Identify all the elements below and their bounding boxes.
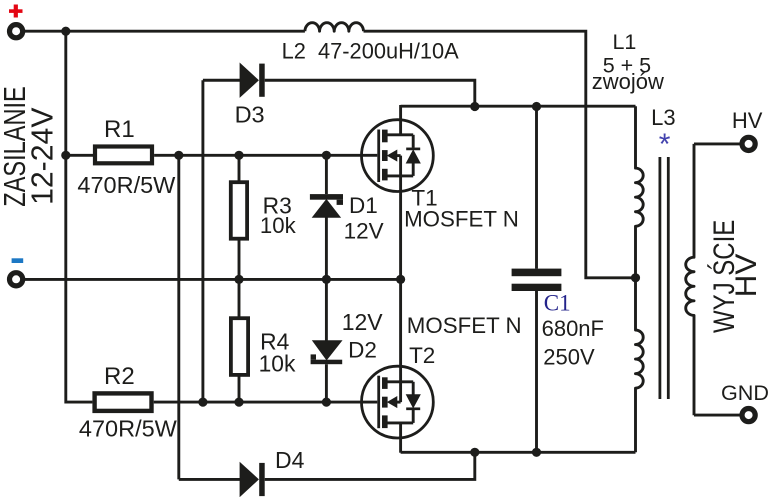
node D1 top junction (322, 151, 331, 160)
svg-text:470R/5W: 470R/5W (77, 172, 176, 198)
wire T1 drain rail (401, 105, 636, 108)
wire D4 gate vertical (177, 155, 180, 479)
wire GND output (694, 414, 741, 417)
supply + terminal (10, 25, 23, 38)
resistor R3 (238, 155, 241, 182)
svg-text:D4: D4 (275, 447, 305, 473)
svg-text:470R/5W: 470R/5W (79, 416, 178, 442)
svg-text:10k: 10k (260, 213, 297, 238)
HV terminal (742, 137, 755, 150)
svg-text:L1: L1 (612, 30, 636, 54)
supply - terminal (10, 273, 23, 286)
svg-text:*: * (659, 128, 671, 161)
plus supply symbol (9, 9, 23, 13)
svg-text:MOSFET N: MOSFET N (404, 207, 519, 232)
wire HV output (694, 142, 741, 145)
node D2 bottom junction (322, 398, 331, 407)
diode D3 (203, 79, 240, 82)
wire T2 drain rail (401, 451, 636, 454)
node D3 drain junction (470, 102, 479, 111)
node R4 bottom junction (234, 398, 243, 407)
GND terminal (742, 409, 755, 422)
transistor T1 (362, 105, 434, 280)
inductor L1 primary (636, 106, 644, 452)
svg-text:12V: 12V (342, 309, 384, 335)
wire T1 gate rail (154, 154, 377, 157)
capacitor C1 (535, 107, 538, 269)
node R1 supply junction (61, 151, 70, 160)
svg-text:250V: 250V (543, 345, 595, 370)
node D4 gate junction (174, 151, 183, 160)
node D4 drain junction (470, 448, 479, 457)
svg-text:12V: 12V (344, 219, 384, 244)
node C1 top junction (532, 102, 541, 111)
inductor L3 secondary (686, 144, 694, 415)
svg-text:T2: T2 (409, 343, 435, 368)
resistor R2 (95, 393, 152, 411)
node R3 R4 junction (234, 275, 243, 284)
node R3 top junction (234, 151, 243, 160)
wire top rail right to center tap (364, 31, 635, 278)
wire minus rail (24, 278, 400, 281)
svg-text:680nF: 680nF (542, 316, 604, 341)
zener diode D2 (325, 279, 328, 340)
diode D4 (179, 478, 240, 481)
wire D3 gate vertical (201, 80, 204, 402)
svg-text:D3: D3 (235, 101, 265, 127)
wire supply vertical (66, 31, 93, 402)
wire T2 gate rail (154, 401, 378, 404)
node D3 gate junction (198, 398, 207, 407)
node C1 bottom junction (532, 448, 541, 457)
svg-text:GND: GND (721, 380, 769, 405)
svg-text:D1: D1 (349, 193, 378, 218)
zener diode D1 (325, 155, 328, 194)
node source junction (396, 275, 405, 284)
node center tap junction (631, 273, 640, 282)
svg-text:L3: L3 (651, 105, 675, 130)
svg-text:D2: D2 (348, 337, 377, 362)
resistor R4 (238, 279, 241, 318)
node D1 D2 junction (322, 275, 331, 284)
wire top rail left (24, 30, 305, 33)
svg-text:R1: R1 (104, 116, 135, 143)
svg-text:zwojów: zwojów (592, 69, 664, 94)
svg-text:10k: 10k (259, 351, 296, 377)
svg-text:L2 47-200uH/10A: L2 47-200uH/10A (282, 38, 459, 63)
minus supply symbol (12, 258, 24, 263)
svg-text:12-24V: 12-24V (25, 107, 59, 205)
svg-text:HV: HV (732, 108, 763, 133)
node top-left junction (61, 27, 70, 36)
svg-text:R2: R2 (104, 363, 135, 390)
svg-text:HV: HV (728, 253, 762, 297)
resistor R1 (66, 154, 95, 157)
svg-text:C1: C1 (544, 290, 571, 315)
transformer core (659, 157, 662, 399)
inductor L2 (305, 23, 364, 31)
transistor T2 (362, 278, 434, 453)
svg-text:MOSFET N: MOSFET N (407, 313, 522, 338)
